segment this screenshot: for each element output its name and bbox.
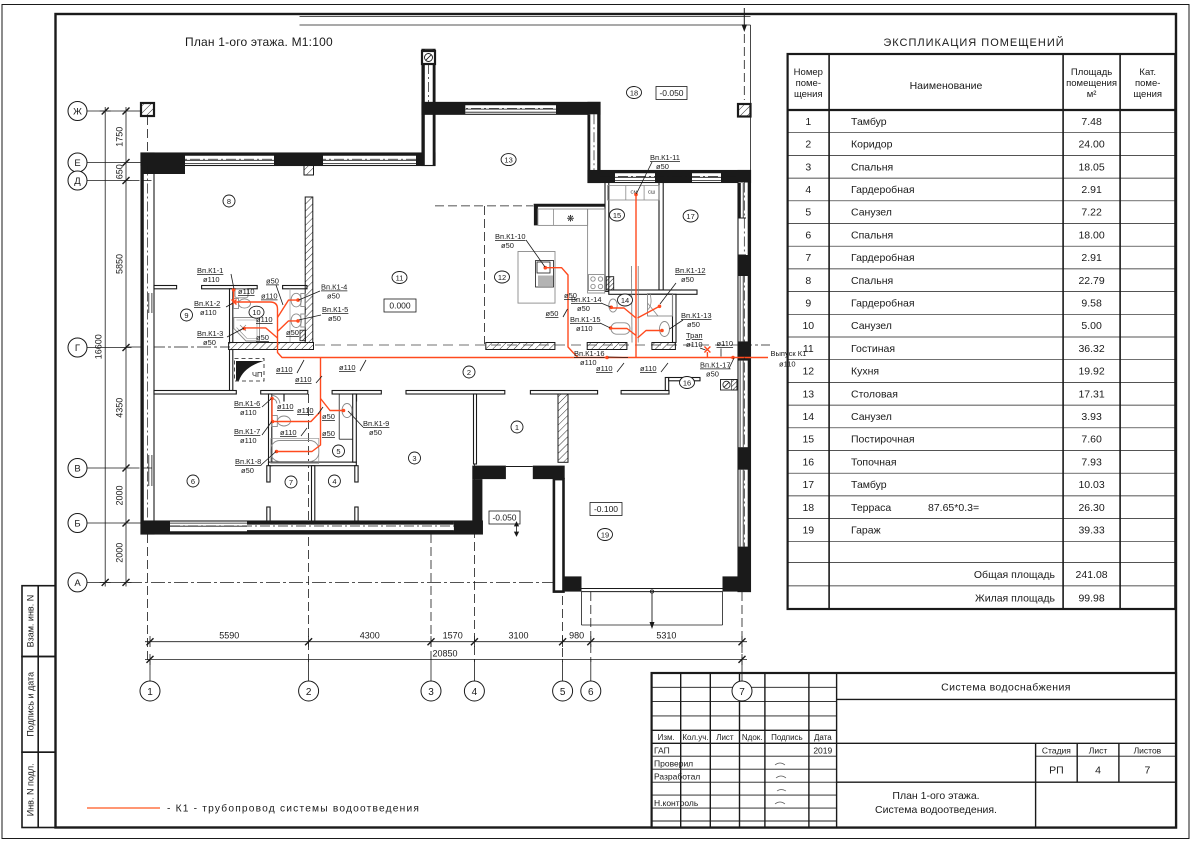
divider 4-3 stub top <box>355 466 358 482</box>
bathtub K1-8 <box>271 441 319 462</box>
svg-text:- К1 - трубопровод системы: - К1 - трубопровод системы водоотведения <box>167 803 420 815</box>
svg-text:поме-: поме- <box>796 78 821 89</box>
svg-text:Вп.К1-1: Вп.К1-1 <box>197 266 223 275</box>
svg-text:Спальня: Спальня <box>851 275 893 287</box>
svg-text:Постирочная: Постирочная <box>851 434 915 446</box>
pipe K1-15 branch <box>611 329 636 336</box>
hatched band 1 <box>229 343 314 350</box>
svg-text:ø110: ø110 <box>238 287 255 296</box>
svg-text:2019: 2019 <box>813 745 832 755</box>
svg-text:18: 18 <box>802 502 814 514</box>
explication table grid <box>788 54 1176 609</box>
bath5 west wall <box>269 394 272 466</box>
svg-text:-0.050: -0.050 <box>492 513 516 523</box>
svg-text:3.93: 3.93 <box>1081 411 1102 423</box>
corridor south wall seg <box>154 391 236 395</box>
pipe K1-3 branch <box>244 328 277 338</box>
svg-text:7: 7 <box>805 252 811 264</box>
elevation mark -0.050 <box>489 511 520 524</box>
dining top wall <box>422 102 600 114</box>
kitchen island <box>518 252 555 304</box>
svg-text:м²: м² <box>1087 89 1097 100</box>
shaft box kitchen <box>606 277 613 290</box>
svg-text:16600: 16600 <box>94 334 104 359</box>
driveway edge lines <box>582 592 723 625</box>
svg-text:А: А <box>74 578 81 589</box>
axis dash-dot line А <box>128 581 563 583</box>
left margin stamp boxes <box>22 586 56 828</box>
svg-text:16: 16 <box>683 378 691 387</box>
wall 15-17 <box>659 183 663 291</box>
title block texts <box>658 733 833 742</box>
svg-text:Тамбур: Тамбур <box>851 479 887 491</box>
hatched band 2 <box>486 343 555 350</box>
bath5 east wall <box>353 394 357 462</box>
divider stubs below corridor wall <box>284 394 357 402</box>
svg-text:Жилая площадь: Жилая площадь <box>975 593 1056 605</box>
svg-text:4: 4 <box>1095 765 1101 777</box>
svg-text:Nдок.: Nдок. <box>742 733 763 742</box>
room circle 4 <box>328 475 340 487</box>
svg-text:Разработал: Разработал <box>654 771 700 781</box>
svg-text:10: 10 <box>252 308 260 317</box>
dining west wall <box>422 49 435 165</box>
svg-text:7.93: 7.93 <box>1081 456 1102 468</box>
room circle 10 <box>249 306 264 318</box>
svg-text:Вп.К1-13: Вп.К1-13 <box>681 311 712 320</box>
pipe stack K1-11 <box>635 195 637 358</box>
tall hatched wall <box>305 197 313 343</box>
svg-text:2000: 2000 <box>114 543 124 563</box>
svg-text:15: 15 <box>613 211 621 220</box>
svg-text:План 1-ого этажа.: План 1-ого этажа. <box>892 790 979 802</box>
interior wall seg y286 <box>202 286 258 289</box>
svg-text:ø110: ø110 <box>240 436 257 445</box>
pipe K1-12 branch <box>638 306 660 318</box>
svg-text:36.32: 36.32 <box>1078 343 1104 355</box>
kitchen top thick wall line <box>534 204 605 207</box>
washbasin K1-13 <box>660 322 670 337</box>
svg-text:Спальня: Спальня <box>851 161 893 173</box>
pipe junction dots <box>232 193 735 454</box>
pipe K1-5 branch <box>278 321 298 331</box>
garage west wall <box>554 479 564 591</box>
svg-text:5: 5 <box>336 447 340 456</box>
svg-text:Общая площадь: Общая площадь <box>974 569 1056 581</box>
svg-text:5850: 5850 <box>114 254 124 274</box>
svg-text:0.000: 0.000 <box>389 301 411 311</box>
svg-text:1: 1 <box>147 687 153 698</box>
corner shower K1-3 <box>234 318 260 342</box>
washer K1-15 <box>611 323 630 334</box>
svg-text:Вп.К1-16: Вп.К1-16 <box>574 349 605 358</box>
svg-text:Площадь: Площадь <box>1071 67 1112 78</box>
svg-text:ø110: ø110 <box>276 365 293 374</box>
svg-text:8: 8 <box>227 197 231 206</box>
svg-text:19.92: 19.92 <box>1078 366 1104 378</box>
washbasin K1-14 <box>609 299 617 312</box>
garage exit arrow <box>650 590 653 622</box>
svg-text:Ж: Ж <box>73 107 82 118</box>
svg-text:2.91: 2.91 <box>1081 252 1102 264</box>
svg-text:8: 8 <box>805 275 811 287</box>
svg-text:ø110: ø110 <box>295 375 312 384</box>
svg-text:Санузел: Санузел <box>851 411 892 423</box>
svg-text:ø110: ø110 <box>576 324 593 333</box>
room circle 17 <box>683 210 698 222</box>
svg-text:5590: 5590 <box>219 631 239 641</box>
kitchen counter top <box>538 209 588 225</box>
svg-text:2: 2 <box>467 368 471 377</box>
svg-text:Коридор: Коридор <box>851 139 893 151</box>
kitchen counter right <box>588 209 605 293</box>
svg-text:щения: щения <box>794 89 823 100</box>
entrance door jambs right wall <box>738 183 741 218</box>
svg-text:3: 3 <box>805 161 811 173</box>
svg-text:ø50: ø50 <box>328 314 341 323</box>
washbasin K1-1 <box>235 289 248 298</box>
svg-text:Вп.К1-8: Вп.К1-8 <box>235 457 261 466</box>
interior wall seg y286 <box>283 286 307 289</box>
svg-text:Вп.К1-11: Вп.К1-11 <box>650 153 680 162</box>
room circle 15 <box>610 209 625 221</box>
svg-text:ø110: ø110 <box>280 428 297 437</box>
svg-text:Взам. инв. N: Взам. инв. N <box>26 595 36 648</box>
bottom wall double-line segment <box>247 521 454 525</box>
legend pipe sample line <box>87 807 160 809</box>
svg-text:ø50: ø50 <box>681 275 694 284</box>
room circle 18 <box>627 87 642 99</box>
room circle 1 <box>511 421 523 433</box>
roof overhang double line top <box>300 17 751 171</box>
room16 north partition <box>669 378 700 381</box>
bottom dimension lines <box>145 636 747 665</box>
pipe K1-13 branch <box>638 331 663 339</box>
svg-text:ø50: ø50 <box>286 328 299 337</box>
svg-text:7.22: 7.22 <box>1081 207 1102 219</box>
wall corner tab top-left <box>141 166 185 175</box>
room circle 12 <box>495 271 510 283</box>
toilet K1-2 <box>234 299 239 309</box>
svg-text:щения: щения <box>1133 89 1162 100</box>
svg-text:-0.100: -0.100 <box>594 504 618 514</box>
svg-text:6: 6 <box>588 687 594 698</box>
room circle 6 <box>187 475 199 487</box>
svg-text:2000: 2000 <box>114 485 124 505</box>
corner basin K1-6 <box>272 396 280 404</box>
svg-text:Гардеробная: Гардеробная <box>851 298 915 310</box>
svg-text:1570: 1570 <box>443 631 463 641</box>
dining NE corner solid <box>588 102 600 114</box>
svg-text:12: 12 <box>498 273 506 282</box>
svg-text:1750: 1750 <box>114 127 124 147</box>
svg-text:поме-: поме- <box>1135 78 1160 89</box>
svg-text:87.65*0.3=: 87.65*0.3= <box>928 502 979 514</box>
boiler room16 <box>721 380 738 391</box>
svg-text:Спальня: Спальня <box>851 229 893 241</box>
fireplace ЧП black triangle <box>236 361 264 381</box>
porch wall east part <box>533 466 565 480</box>
axis circle А <box>68 573 87 592</box>
level arrow porch <box>515 522 519 536</box>
axis circle 1 <box>140 681 160 701</box>
svg-text:ø50: ø50 <box>241 466 254 475</box>
left dimension texts <box>94 127 125 563</box>
divider 7-4 <box>312 466 315 521</box>
svg-text:Вп.К1-17: Вп.К1-17 <box>700 361 731 370</box>
svg-text:Стадия: Стадия <box>1042 746 1071 756</box>
svg-text:4: 4 <box>332 477 336 486</box>
svg-text:Столовая: Столовая <box>851 388 898 400</box>
washbasin K1-9 <box>342 404 352 418</box>
hatched band 3 <box>587 343 627 350</box>
svg-text:Номер: Номер <box>794 67 823 78</box>
svg-text:-0.050: -0.050 <box>659 88 683 98</box>
bath10 inner partition line <box>289 289 291 343</box>
svg-text:ø110: ø110 <box>240 408 257 417</box>
rain pipe arrow top <box>742 8 746 31</box>
svg-text:Гараж: Гараж <box>851 525 881 537</box>
svg-text:2.91: 2.91 <box>1081 184 1102 196</box>
column terrace hatched <box>738 104 751 117</box>
column symbol top of dining wall <box>422 51 435 64</box>
pipe branch to bath5 <box>277 358 321 452</box>
svg-text:Гардеробная: Гардеробная <box>851 184 915 196</box>
svg-text:11: 11 <box>396 273 404 282</box>
svg-text:Трап: Трап <box>686 331 703 340</box>
wall centerline dash-dot <box>148 64 745 576</box>
stub pier <box>304 166 314 176</box>
svg-text:Система водоснабжения: Система водоснабжения <box>941 682 1071 694</box>
svg-text:1: 1 <box>515 423 519 432</box>
svg-text:12: 12 <box>802 366 814 378</box>
exterior wall left <box>141 153 154 534</box>
svg-text:3: 3 <box>412 454 416 463</box>
svg-text:ø110: ø110 <box>580 358 597 367</box>
svg-text:9: 9 <box>184 311 188 320</box>
svg-text:13: 13 <box>504 155 512 164</box>
svg-text:Проверил: Проверил <box>654 758 693 768</box>
room circle 14 <box>618 294 633 306</box>
svg-text:ø110: ø110 <box>686 340 703 349</box>
toilet K1-4 <box>301 294 306 307</box>
svg-text:Б: Б <box>74 519 80 530</box>
entrance hatched wall <box>558 391 568 463</box>
svg-text:❋: ❋ <box>567 214 575 224</box>
svg-text:7: 7 <box>1144 765 1150 777</box>
room circle 9 <box>181 309 193 321</box>
interior wall seg y286 <box>154 286 177 289</box>
signature squiggles <box>775 763 786 804</box>
svg-text:7.48: 7.48 <box>1081 116 1102 128</box>
pipe floor drain <box>706 352 708 358</box>
pipe cross marks <box>232 300 711 353</box>
pipe main K1 line <box>234 290 768 358</box>
svg-text:Вп.К1-2: Вп.К1-2 <box>194 299 220 308</box>
corridor south wall seg <box>261 391 308 395</box>
room circle 13 <box>501 154 516 166</box>
svg-text:Вп.К1-7: Вп.К1-7 <box>234 427 260 436</box>
shaft lines bath14 <box>631 266 634 343</box>
vertical axis dashed lines <box>148 34 745 662</box>
svg-text:9: 9 <box>805 298 811 310</box>
svg-text:7: 7 <box>289 478 293 487</box>
svg-text:ø50: ø50 <box>706 370 719 379</box>
svg-text:24.00: 24.00 <box>1078 139 1104 151</box>
svg-text:ø110: ø110 <box>640 364 657 373</box>
north wall rooms 15-17 <box>588 171 751 183</box>
axis circle 2 <box>299 681 319 701</box>
svg-text:ЭКСПЛИКАЦИЯ ПОМЕЩЕНИЙ: ЭКСПЛИКАЦИЯ ПОМЕЩЕНИЙ <box>883 36 1064 49</box>
svg-text:Лист: Лист <box>1089 746 1108 756</box>
pipe K1-6 K1-7 <box>272 399 320 422</box>
vent box bath10 <box>300 330 306 341</box>
axis circle 3 <box>421 681 441 701</box>
svg-text:Д: Д <box>74 176 81 187</box>
hatched band 4 <box>652 343 676 350</box>
pipe K1-4 branch <box>278 300 299 317</box>
svg-text:Тамбур: Тамбур <box>851 116 887 128</box>
svg-text:5: 5 <box>805 207 811 219</box>
room circle 2 <box>463 366 475 378</box>
svg-text:650: 650 <box>114 164 124 179</box>
title block outer <box>652 673 1176 828</box>
svg-text:Дата: Дата <box>814 733 832 742</box>
axis leader lines into plan <box>132 111 155 523</box>
svg-text:ø110: ø110 <box>200 308 217 317</box>
svg-text:19: 19 <box>802 525 814 537</box>
svg-text:4350: 4350 <box>114 398 124 418</box>
svg-text:14: 14 <box>621 296 629 305</box>
svg-text:14: 14 <box>802 411 814 423</box>
room circle 8 <box>223 195 235 207</box>
garage bottom left block <box>553 576 582 591</box>
corridor south wall seg <box>406 391 505 395</box>
svg-text:Гардеробная: Гардеробная <box>851 252 915 264</box>
corridor south wall seg <box>621 391 669 395</box>
svg-text:18.00: 18.00 <box>1078 229 1104 241</box>
svg-text:ø50: ø50 <box>322 412 335 421</box>
svg-text:Система водоотведения.: Система водоотведения. <box>875 804 997 816</box>
room circle 11 <box>392 272 407 284</box>
svg-text:18.05: 18.05 <box>1078 161 1104 173</box>
svg-text:980: 980 <box>569 631 584 641</box>
bottom dimension texts <box>219 631 676 659</box>
svg-text:ГАП: ГАП <box>654 745 670 755</box>
svg-text:ø50: ø50 <box>369 428 382 437</box>
svg-text:7.60: 7.60 <box>1081 434 1102 446</box>
svg-text:1: 1 <box>805 116 811 128</box>
svg-text:10: 10 <box>802 320 814 332</box>
axis circle Е <box>68 153 87 172</box>
svg-text:Подпись и дата: Подпись и дата <box>26 672 36 737</box>
svg-text:9.58: 9.58 <box>1081 298 1102 310</box>
svg-text:17.31: 17.31 <box>1078 388 1104 400</box>
svg-text:ø50: ø50 <box>687 320 700 329</box>
axis circle 6 <box>581 681 601 701</box>
divider 6-7 stub top <box>267 466 270 482</box>
svg-text:План 1-ого этажа. М1:100: План 1-ого этажа. М1:100 <box>185 35 333 49</box>
svg-text:Вп.К1-6: Вп.К1-6 <box>234 399 260 408</box>
table rows text <box>802 116 1107 605</box>
svg-text:ø50: ø50 <box>546 309 559 318</box>
svg-text:5310: 5310 <box>656 631 676 641</box>
svg-text:ø110: ø110 <box>596 364 613 373</box>
exterior wall top axis E <box>141 153 435 166</box>
dashed boundary dining <box>435 205 533 207</box>
svg-text:Топочная: Топочная <box>851 456 897 468</box>
svg-text:22.79: 22.79 <box>1078 275 1104 287</box>
svg-text:ø50: ø50 <box>256 333 269 342</box>
axis circle Г <box>68 338 87 357</box>
divider 4-3 stub bottom <box>355 507 358 521</box>
svg-text:ø50: ø50 <box>564 291 577 300</box>
room circle 3 <box>409 452 421 464</box>
kitchen east wall <box>605 183 609 292</box>
svg-text:ЧП: ЧП <box>252 370 262 379</box>
svg-text:2: 2 <box>306 687 312 698</box>
svg-text:2: 2 <box>805 139 811 151</box>
svg-text:4300: 4300 <box>360 631 380 641</box>
svg-text:ø110: ø110 <box>779 360 796 369</box>
svg-text:241.08: 241.08 <box>1076 569 1108 581</box>
axis circle 4 <box>464 681 484 701</box>
column axis Ж hatched <box>141 103 154 116</box>
svg-text:17: 17 <box>686 212 694 221</box>
svg-text:помещения: помещения <box>1066 78 1117 89</box>
svg-text:39.33: 39.33 <box>1078 525 1104 537</box>
table headers <box>794 67 1162 100</box>
svg-text:17: 17 <box>802 479 814 491</box>
bath14 east wall <box>673 294 677 342</box>
svg-text:ø50: ø50 <box>577 304 590 313</box>
left dimension lines <box>100 107 132 587</box>
svg-text:Гостиная: Гостиная <box>851 343 895 355</box>
svg-text:Лист: Лист <box>716 733 734 742</box>
svg-text:ø50: ø50 <box>656 162 669 171</box>
svg-text:Вп.К1-3: Вп.К1-3 <box>197 329 223 338</box>
laundry appliances room15 <box>608 186 660 201</box>
room circle 16 <box>680 377 695 389</box>
svg-text:ø110: ø110 <box>203 275 220 284</box>
toilet K1-7 <box>272 416 278 427</box>
svg-text:4: 4 <box>805 184 811 196</box>
corner shower K1-12 <box>648 294 673 317</box>
svg-text:Инв. N подл.: Инв. N подл. <box>26 763 36 816</box>
svg-text:Вп.К1-4: Вп.К1-4 <box>321 283 347 292</box>
toilet K1-5 <box>301 314 306 327</box>
room circle 7 <box>285 476 297 488</box>
elevation mark 0.000 <box>384 299 416 312</box>
corridor south wall seg <box>530 391 597 395</box>
bath10 west wall <box>230 289 233 343</box>
svg-text:4: 4 <box>472 687 478 698</box>
axis dash line Г corridor <box>128 346 230 348</box>
axis circle Ж <box>68 102 87 121</box>
svg-text:19: 19 <box>601 530 609 539</box>
axis circle В <box>68 459 87 478</box>
exterior wall right <box>738 171 751 592</box>
divider 6-7 stub bottom <box>267 507 270 521</box>
bath14 north wall <box>609 290 697 294</box>
corridor west wall <box>230 350 233 391</box>
dining east wall <box>588 102 600 182</box>
svg-text:Санузел: Санузел <box>851 207 892 219</box>
axis circle 7 <box>732 681 752 701</box>
title block grid <box>652 673 1176 828</box>
svg-text:20850: 20850 <box>432 648 457 658</box>
svg-text:Вп.К1-9: Вп.К1-9 <box>363 419 389 428</box>
